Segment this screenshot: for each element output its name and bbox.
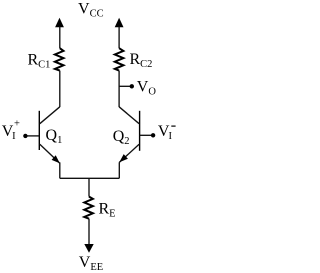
svg-text:RC2: RC2 (130, 51, 153, 70)
wire rail to RE (88, 178, 90, 196)
wire Q2 emitter to rail (118, 162, 120, 178)
svg-text:VI: VI (158, 123, 173, 142)
svg-text:+: + (14, 118, 20, 129)
svg-text:RE: RE (99, 201, 116, 220)
svg-text:Q2: Q2 (113, 128, 130, 147)
resistor RE (84, 197, 93, 219)
svg-text:RC1: RC1 (28, 52, 51, 71)
svg-text:VO: VO (137, 78, 157, 97)
wire Q2 base to Vi- (140, 134, 154, 136)
wire Q1 emitter to rail (59, 162, 61, 178)
node Vi+ dot (23, 134, 27, 138)
wire RC1 to Q1 collector (59, 71, 61, 107)
transistor Q2 (119, 107, 140, 163)
wire Vo branch (119, 85, 132, 87)
resistor RC2 (115, 48, 124, 70)
VCC supply arrow right (115, 18, 124, 48)
wire RC2 to Q2 collector (118, 71, 120, 107)
node Vi- dot (151, 133, 155, 137)
resistor RC1 (55, 48, 64, 70)
svg-text:Q1: Q1 (46, 127, 63, 146)
transistor Q1 (39, 107, 60, 163)
wire emitter rail (60, 177, 120, 179)
wire Vi+ to Q1 base (25, 135, 39, 137)
svg-text:VEE: VEE (79, 254, 103, 273)
svg-text:VCC: VCC (78, 1, 104, 20)
VEE supply arrow (84, 244, 93, 253)
node Vo dot (130, 84, 134, 88)
VCC supply arrow left (55, 18, 64, 48)
wire RE to VEE (88, 219, 90, 245)
